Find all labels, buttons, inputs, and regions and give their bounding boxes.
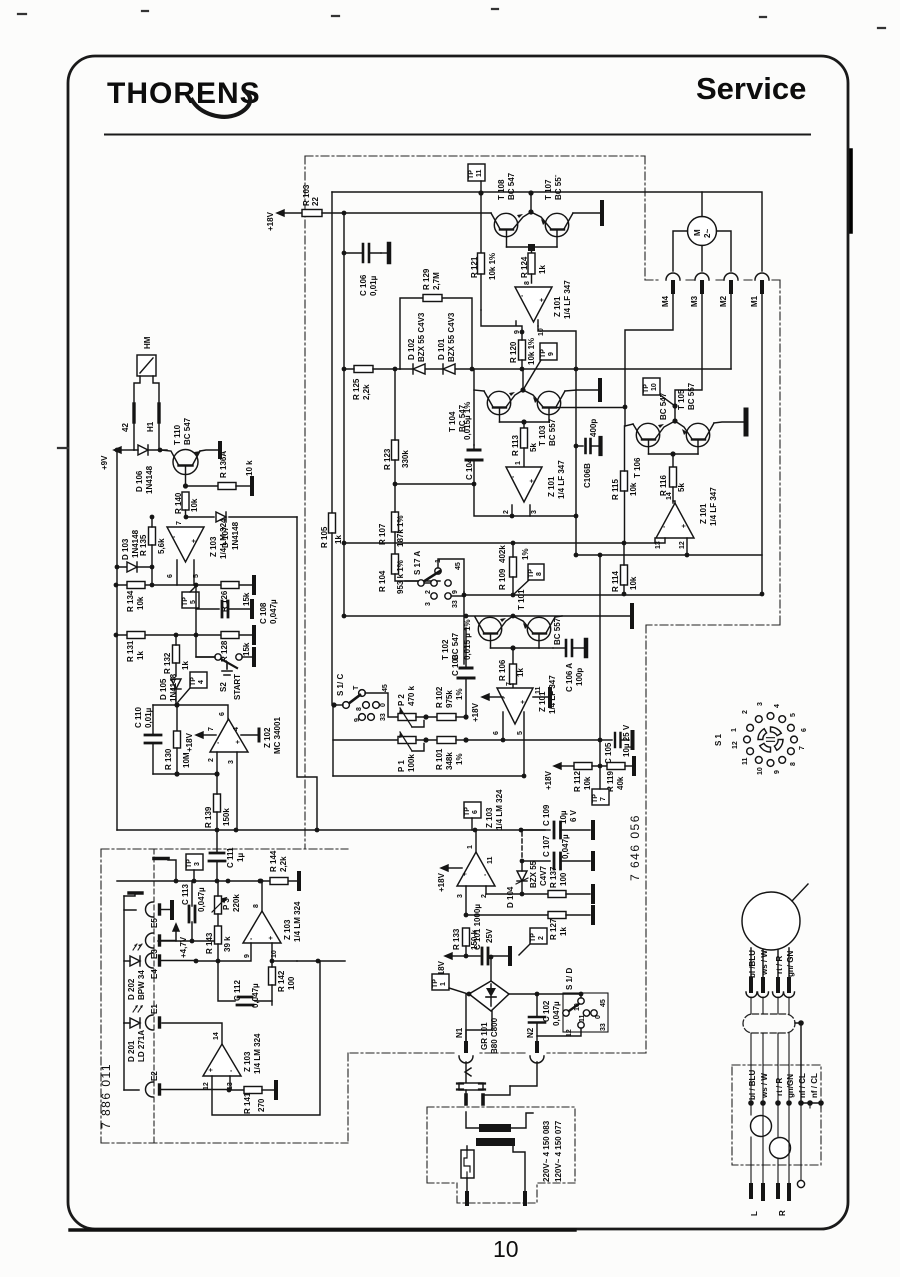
supply arrow +4.7V E3 bbox=[173, 924, 188, 958]
op-amp Z101 section A bbox=[515, 280, 572, 322]
svg-text:gn/GN: gn/GN bbox=[786, 1074, 795, 1098]
wire emitter junction up to zener rail bbox=[522, 369, 524, 390]
wire +18 rail y616 bbox=[344, 615, 630, 617]
resistor R131 bbox=[126, 632, 145, 663]
wire N2 down to primary bbox=[483, 1062, 537, 1086]
diode D105 1N4148 bbox=[159, 673, 181, 702]
ground R128 bbox=[252, 627, 256, 643]
svg-text:9: 9 bbox=[774, 770, 781, 774]
svg-text:TP: TP bbox=[190, 677, 197, 686]
svg-text:E4: E4 bbox=[150, 969, 159, 979]
svg-text:E5: E5 bbox=[150, 918, 159, 928]
ground rail y616 bbox=[630, 605, 634, 627]
node R102 junction bbox=[463, 714, 468, 719]
wire motor left to M4 bbox=[673, 231, 688, 271]
svg-text:1k: 1k bbox=[516, 668, 525, 677]
pickup cartridge circle bbox=[742, 884, 808, 950]
ground C107 bbox=[591, 853, 595, 869]
resistor R113 bbox=[511, 422, 538, 467]
node base node T106 pair bbox=[670, 451, 675, 456]
resistor R128 bbox=[220, 632, 251, 663]
svg-text:7 646 056: 7 646 056 bbox=[628, 814, 642, 881]
svg-text:TP: TP bbox=[464, 807, 471, 816]
svg-text:+18V: +18V bbox=[437, 872, 446, 892]
wire Z102 pin4 to bar bbox=[233, 727, 259, 741]
svg-text:C 105: C 105 bbox=[604, 742, 613, 764]
diode D103 1N4148 bbox=[121, 529, 140, 572]
svg-text:1%: 1% bbox=[455, 753, 464, 765]
wire S17A lever to R104 bbox=[405, 580, 418, 582]
testpoint TP2 bbox=[519, 928, 547, 955]
svg-text:11: 11 bbox=[579, 1014, 586, 1022]
sensor board outline box 7 886 011 bbox=[101, 849, 348, 1143]
svg-text:BZX 55: BZX 55 bbox=[529, 860, 538, 888]
svg-text:D 101: D 101 bbox=[437, 338, 446, 360]
svg-text:7 886 011: 7 886 011 bbox=[99, 1063, 113, 1129]
ground R141 bbox=[274, 1082, 278, 1098]
transformer output terminals bbox=[467, 1193, 525, 1204]
ground C101 bbox=[508, 948, 512, 964]
wire row y915 bbox=[466, 914, 548, 916]
capacitor C110 bbox=[134, 705, 161, 774]
transistor T102 BC547 bbox=[441, 616, 513, 660]
node PSU junction bbox=[464, 954, 469, 959]
wire opamp B pin2 input bbox=[511, 505, 513, 516]
main board outline right edge bbox=[646, 280, 780, 1053]
svg-text:R 131: R 131 bbox=[126, 640, 135, 662]
svg-text:+: + bbox=[191, 539, 198, 543]
node S17C lever junction bbox=[331, 702, 336, 707]
switch S1 wafer arcs bbox=[771, 727, 782, 736]
svg-text:C 106: C 106 bbox=[359, 274, 368, 296]
ground TP3 row bbox=[154, 859, 176, 882]
ground lug open circle bbox=[797, 1180, 804, 1187]
wire E1 to opamp D top bbox=[162, 1023, 222, 1044]
terminal E4 bbox=[146, 953, 196, 979]
jack contact 42 bbox=[121, 404, 134, 432]
wire chassis bus bbox=[801, 1102, 821, 1104]
testpoint TP5 bbox=[182, 586, 199, 608]
ground T110 bbox=[218, 443, 222, 457]
svg-text:7: 7 bbox=[506, 682, 513, 686]
wire shield drop bbox=[795, 1023, 801, 1103]
main board outline left edge bbox=[304, 156, 306, 849]
transformer secondary winding bbox=[476, 1138, 515, 1146]
svg-text:2,7M: 2,7M bbox=[432, 272, 441, 290]
resistor R115 bbox=[611, 426, 638, 543]
node R125 junction left bbox=[342, 367, 347, 372]
svg-text:10k 1%: 10k 1% bbox=[488, 253, 497, 280]
node row635 junctions bbox=[114, 633, 119, 638]
resistor R129 bbox=[422, 268, 442, 301]
node Z102 input junctions bbox=[174, 771, 179, 776]
jack circle right bbox=[770, 1138, 791, 1159]
svg-text:D 202: D 202 bbox=[127, 978, 136, 1000]
svg-text:N2: N2 bbox=[526, 1027, 535, 1038]
svg-text:0,047µ: 0,047µ bbox=[197, 887, 206, 912]
svg-text:T 107: T 107 bbox=[544, 179, 553, 200]
svg-text:10k: 10k bbox=[629, 576, 638, 590]
node base node T102 pair bbox=[510, 645, 515, 650]
svg-text:T 106: T 106 bbox=[633, 457, 642, 478]
terminal N2 bbox=[526, 1027, 544, 1063]
wire fuse to primary stubs bbox=[466, 1087, 483, 1095]
scan streak right edge bbox=[849, 150, 853, 232]
svg-text:H1: H1 bbox=[146, 421, 155, 432]
svg-text:Z 102: Z 102 bbox=[263, 727, 272, 748]
transistor T108 BC547 bbox=[491, 172, 531, 247]
wire pickup leads bbox=[751, 948, 789, 979]
wire x117 to row881 bbox=[116, 830, 118, 881]
svg-text:10: 10 bbox=[651, 383, 658, 391]
svg-text:TP: TP bbox=[468, 170, 475, 179]
svg-text:10: 10 bbox=[757, 767, 764, 775]
terminal M2 bbox=[719, 273, 738, 369]
svg-text:M4: M4 bbox=[661, 295, 670, 307]
svg-text:6 V: 6 V bbox=[569, 809, 578, 822]
wire row y830 bbox=[117, 829, 475, 831]
ground R126 bbox=[252, 577, 256, 593]
svg-text:THORENS: THORENS bbox=[107, 77, 261, 110]
svg-text:348k: 348k bbox=[445, 752, 454, 770]
wire row y555 bbox=[576, 554, 762, 556]
terminal M4 bbox=[625, 273, 680, 407]
svg-text:Service: Service bbox=[696, 71, 806, 106]
node C107 junction bbox=[520, 859, 525, 864]
svg-text:+18V: +18V bbox=[544, 770, 553, 790]
testpoint TP4 bbox=[178, 672, 207, 702]
svg-text:E1: E1 bbox=[150, 1004, 159, 1014]
svg-text:10k 1%: 10k 1% bbox=[527, 338, 536, 365]
svg-text:R 137: R 137 bbox=[549, 866, 558, 888]
svg-text:10k: 10k bbox=[190, 498, 199, 512]
node P2 wiper junction bbox=[423, 714, 428, 719]
wire T107 collector to ground bbox=[573, 212, 600, 214]
svg-text:8: 8 bbox=[253, 904, 260, 908]
wires capsule to chassis bbox=[751, 1033, 789, 1103]
svg-text:T 103: T 103 bbox=[538, 425, 547, 446]
svg-text:BZX 55 C4V3: BZX 55 C4V3 bbox=[417, 312, 426, 362]
transistor T106 BC547 bbox=[633, 392, 675, 478]
transformer primary winding bbox=[466, 1104, 537, 1132]
switch S2 START bbox=[196, 635, 252, 700]
svg-text:TP: TP bbox=[592, 794, 599, 803]
svg-text:R 133: R 133 bbox=[452, 928, 461, 950]
ground R137 bbox=[591, 886, 595, 902]
svg-text:TP: TP bbox=[182, 597, 189, 606]
wire contact 45 to P2 bbox=[365, 693, 398, 717]
svg-text:+18V: +18V bbox=[266, 211, 275, 231]
wires chassis to output bbox=[751, 1103, 821, 1185]
wire secondary right down bbox=[514, 1146, 525, 1193]
svg-text:S 17 A: S 17 A bbox=[413, 551, 422, 575]
terminal E3 bbox=[146, 933, 176, 959]
resistor R144 bbox=[269, 850, 288, 884]
transistor T101 BC557 bbox=[513, 589, 562, 648]
node row915 junction bbox=[464, 913, 469, 918]
svg-text:C 110: C 110 bbox=[134, 707, 143, 728]
svg-text:R: R bbox=[778, 1210, 787, 1216]
svg-text:C 108: C 108 bbox=[259, 602, 268, 624]
svg-text:R 142: R 142 bbox=[277, 970, 286, 992]
capacitor C113 bbox=[181, 881, 206, 941]
wire pin12 feedback loop bbox=[212, 961, 320, 1115]
svg-text:1: 1 bbox=[467, 845, 474, 849]
wire zener rail bbox=[400, 368, 731, 370]
svg-text:11: 11 bbox=[535, 686, 542, 694]
svg-text:4: 4 bbox=[233, 727, 240, 731]
wire C112 loop bbox=[218, 959, 272, 1005]
svg-text:T 101: T 101 bbox=[517, 589, 526, 610]
node R101 junction bbox=[463, 737, 468, 742]
terminal E5 bbox=[146, 902, 170, 928]
svg-text:Z 103: Z 103 bbox=[283, 919, 292, 940]
LED D201 LD271A bbox=[124, 1005, 146, 1062]
svg-text:R 109: R 109 bbox=[498, 568, 507, 590]
wire base bracket T108/T107 bbox=[507, 246, 558, 248]
svg-text:11: 11 bbox=[742, 757, 749, 765]
supply arrow +18V R112 bbox=[544, 763, 574, 790]
svg-text:GR 101: GR 101 bbox=[480, 1022, 489, 1050]
svg-text:R 136A: R 136A bbox=[219, 451, 228, 478]
wire opamp B output to row 881 bbox=[261, 881, 263, 911]
svg-text:BC 557: BC 557 bbox=[553, 617, 562, 645]
svg-text:R 106: R 106 bbox=[498, 659, 507, 681]
testpoint TP11 bbox=[468, 164, 485, 192]
svg-text:40k: 40k bbox=[616, 776, 625, 790]
svg-text:M: M bbox=[693, 229, 702, 236]
headphone jack HM bbox=[137, 336, 156, 376]
frame bottom thick segment bbox=[70, 1228, 575, 1231]
svg-text:402k: 402k bbox=[498, 545, 507, 563]
node chassis junction row bbox=[748, 1100, 824, 1106]
svg-text:P 1: P 1 bbox=[397, 760, 406, 772]
svg-text:BC 547: BC 547 bbox=[507, 172, 516, 200]
wire S17A down to C103 bbox=[463, 592, 465, 664]
svg-text:R 134: R 134 bbox=[126, 590, 135, 612]
switch S17A bbox=[405, 543, 464, 608]
node capsule shield junction bbox=[798, 1020, 804, 1026]
svg-text:+: + bbox=[235, 740, 242, 744]
node pin5/pin6 junctions bbox=[522, 774, 527, 779]
wire R129 loop bbox=[400, 298, 472, 369]
resistor R132 bbox=[163, 635, 190, 676]
resistor R142 bbox=[269, 961, 297, 1005]
svg-text:R 130: R 130 bbox=[164, 748, 173, 770]
transformer box outline bbox=[427, 1107, 575, 1203]
capacitor C101 electrolytic bbox=[466, 904, 508, 964]
wire x600 C105 to R112 bbox=[599, 555, 601, 766]
node bridge top junction bbox=[489, 955, 494, 960]
svg-text:R 124: R 124 bbox=[520, 256, 529, 278]
svg-text:Z 101: Z 101 bbox=[699, 503, 708, 524]
testpoint TP3 bbox=[186, 854, 203, 881]
wire S17D to N2 bbox=[537, 1028, 581, 1036]
node pair junction bbox=[672, 418, 677, 423]
supply arrow +18V Z103c bbox=[437, 865, 462, 892]
svg-text:TP: TP bbox=[186, 859, 193, 868]
resistor R105 bbox=[320, 513, 343, 705]
switch S1 position numbers bbox=[731, 702, 808, 775]
op-amp Z101 section B bbox=[506, 460, 566, 502]
svg-text:C 104: C 104 bbox=[465, 458, 474, 480]
svg-text:TP: TP bbox=[528, 569, 535, 578]
svg-text:100p: 100p bbox=[575, 668, 584, 686]
svg-text:TP: TP bbox=[530, 933, 537, 942]
capacitor C112 bbox=[218, 959, 260, 1012]
jack contact H1 bbox=[146, 404, 159, 432]
svg-text:9: 9 bbox=[548, 352, 555, 356]
svg-text:11: 11 bbox=[487, 856, 494, 864]
capacitor C109 bbox=[521, 804, 590, 838]
svg-text:5: 5 bbox=[790, 713, 797, 717]
svg-text:M1: M1 bbox=[750, 295, 759, 307]
resistor R114 bbox=[611, 543, 638, 594]
svg-text:5: 5 bbox=[193, 574, 200, 578]
svg-text:1/4 LF 347: 1/4 LF 347 bbox=[557, 460, 566, 499]
svg-text:R 102: R 102 bbox=[435, 686, 444, 708]
svg-text:R 105: R 105 bbox=[320, 526, 329, 548]
svg-text:S 1/ D: S 1/ D bbox=[565, 968, 574, 990]
svg-text:BC 557: BC 557 bbox=[687, 382, 696, 410]
wire left rail E4 to E1 bbox=[123, 910, 125, 1023]
wires to cable capsule bbox=[751, 997, 789, 1014]
transistor T110 BC547 bbox=[160, 417, 201, 486]
svg-text:R 120: R 120 bbox=[509, 341, 518, 363]
ground T103 bbox=[598, 380, 602, 400]
svg-text:2,2k: 2,2k bbox=[362, 384, 371, 400]
svg-text:8: 8 bbox=[536, 572, 543, 576]
potentiometer P3 bbox=[212, 881, 241, 926]
pin sockets bbox=[746, 992, 795, 998]
svg-text:1k: 1k bbox=[181, 661, 190, 670]
svg-text:2,2k: 2,2k bbox=[279, 856, 288, 872]
resistor R121 bbox=[470, 193, 497, 326]
wire pin3 feedback bbox=[529, 505, 531, 516]
wire P1 row from x333 bbox=[333, 739, 398, 741]
mains polarity mark bbox=[465, 1068, 471, 1076]
capacitor C107 bbox=[522, 834, 590, 869]
capacitor C103 bbox=[451, 619, 474, 717]
node junction C106 tap bbox=[342, 251, 347, 256]
node mid row junctions bbox=[342, 541, 347, 546]
svg-text:0,015 µ 1%: 0,015 µ 1% bbox=[463, 619, 472, 660]
svg-text:1/4 LM 324: 1/4 LM 324 bbox=[495, 789, 504, 830]
node T pair top junction bbox=[528, 190, 533, 195]
svg-text:C106B: C106B bbox=[583, 463, 592, 488]
photodiode D202 BPW34 bbox=[124, 944, 146, 1000]
svg-text:TP: TP bbox=[432, 979, 439, 988]
resistor R136A bbox=[186, 451, 255, 490]
wire pin13 to R141 bbox=[229, 1076, 231, 1090]
resistor R133 bbox=[452, 928, 479, 956]
capacitor C106B bbox=[574, 419, 601, 488]
node zener rail R123 tap bbox=[393, 367, 398, 372]
resistor R123 bbox=[383, 369, 410, 484]
svg-text:6: 6 bbox=[472, 810, 479, 814]
cable bundle capsule bbox=[743, 1014, 795, 1033]
potentiometer P2 bbox=[397, 685, 437, 727]
wire R135 bottom to row585 bbox=[151, 567, 153, 585]
svg-text:6: 6 bbox=[219, 712, 226, 716]
switch S17D bbox=[563, 968, 608, 1037]
svg-text:470 k: 470 k bbox=[407, 685, 416, 706]
svg-text:12: 12 bbox=[732, 741, 739, 749]
svg-text:39 k: 39 k bbox=[223, 936, 232, 952]
svg-text:D 104: D 104 bbox=[506, 886, 515, 908]
svg-text:R 140: R 140 bbox=[174, 492, 183, 514]
svg-text:2: 2 bbox=[425, 590, 432, 594]
svg-text:R 127: R 127 bbox=[549, 918, 558, 940]
svg-text:11: 11 bbox=[476, 169, 483, 177]
svg-text:3: 3 bbox=[194, 862, 201, 866]
svg-text:+: + bbox=[539, 298, 546, 302]
svg-text:22: 22 bbox=[311, 197, 320, 206]
svg-text:1k: 1k bbox=[559, 927, 568, 936]
svg-text:33: 33 bbox=[380, 713, 387, 721]
resistor R104 bbox=[378, 554, 440, 594]
svg-text:R 107: R 107 bbox=[378, 523, 387, 545]
svg-text:BC 547: BC 547 bbox=[659, 392, 668, 420]
capacitor C106 bbox=[344, 244, 389, 296]
resistor R140 bbox=[174, 492, 199, 517]
node R109 junctions bbox=[511, 541, 516, 546]
wire base bracket T102/T101 bbox=[491, 647, 540, 649]
transistor T103 BC557 bbox=[523, 390, 565, 446]
wire mid row y543 bbox=[344, 538, 655, 543]
label transformer voltages bbox=[542, 1120, 563, 1182]
svg-text:45: 45 bbox=[455, 562, 462, 570]
wire N1 to bridge left corner bbox=[466, 994, 469, 1043]
wire pin13 input bbox=[655, 538, 665, 543]
resistor R134 bbox=[126, 582, 145, 613]
svg-text:R 143: R 143 bbox=[205, 932, 214, 954]
wire C104 top to zener rail bbox=[473, 369, 475, 445]
wire opamp D pin11 to ground bbox=[533, 696, 549, 698]
svg-text:+18V: +18V bbox=[471, 702, 480, 722]
wire R142 bottom join bbox=[271, 985, 273, 1001]
svg-text:+: + bbox=[529, 479, 536, 483]
node C105 junction bbox=[598, 738, 603, 743]
diode D101 BZX55C4V3 bbox=[437, 312, 456, 374]
wire T106 base to C106B bbox=[600, 443, 649, 449]
svg-text:R 112: R 112 bbox=[573, 771, 582, 792]
svg-text:TP: TP bbox=[540, 349, 547, 358]
svg-text:5k: 5k bbox=[677, 483, 686, 492]
ground C109 bbox=[591, 822, 595, 838]
svg-text:1: 1 bbox=[731, 728, 738, 732]
wire R103 node to T108 collector bbox=[344, 212, 491, 214]
svg-text:+: + bbox=[462, 872, 469, 876]
svg-text:R 125: R 125 bbox=[352, 378, 361, 400]
scan speck top-left bbox=[18, 9, 885, 448]
svg-text:6: 6 bbox=[801, 728, 808, 732]
svg-text:S 1: S 1 bbox=[714, 733, 723, 746]
potentiometer P1 bbox=[397, 732, 437, 772]
svg-text:rt / R: rt / R bbox=[775, 1078, 784, 1096]
diode D106 1N4148 bbox=[134, 445, 160, 494]
node pin9 junction bbox=[520, 330, 525, 335]
wire pin10 down x576 bbox=[538, 326, 576, 555]
page border frame bbox=[68, 56, 848, 1229]
node S17A output junction bbox=[462, 593, 467, 598]
svg-text:42: 42 bbox=[121, 423, 130, 432]
ground R136A bbox=[250, 478, 254, 494]
wire C104 row to pin2 bbox=[474, 484, 576, 516]
wire bridge top stub bbox=[490, 957, 492, 981]
wire row y585 bbox=[116, 584, 252, 586]
svg-text:Z 103: Z 103 bbox=[485, 807, 494, 828]
